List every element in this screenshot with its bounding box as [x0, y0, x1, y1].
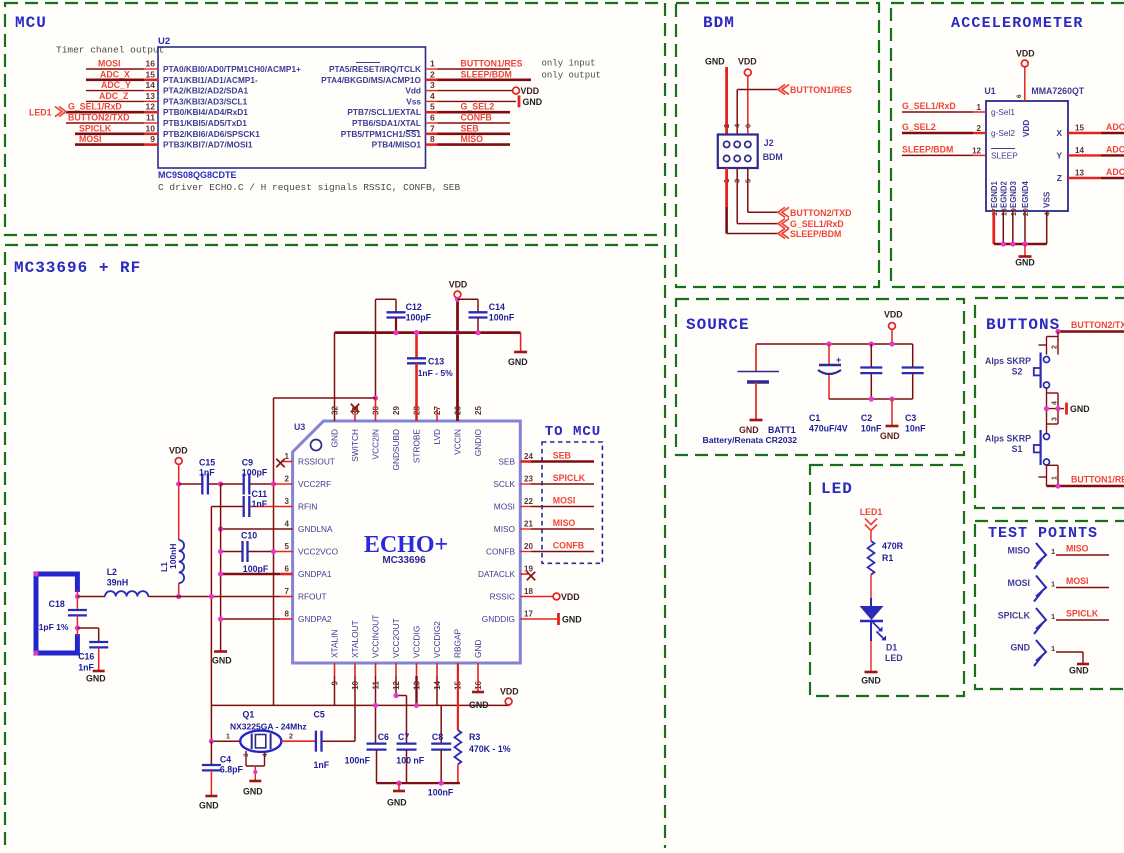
- section frame LED: [810, 465, 964, 696]
- svg-text:6: 6: [430, 113, 435, 123]
- svg-text:GND: GND: [469, 700, 489, 710]
- junction C1 top: [826, 341, 831, 346]
- svg-text:9: 9: [150, 134, 155, 144]
- svg-text:STROBE: STROBE: [412, 429, 422, 464]
- svg-text:CONFB: CONFB: [553, 541, 584, 551]
- section frame SOURCE: [676, 299, 964, 455]
- svg-text:VDD: VDD: [169, 446, 188, 456]
- switch S1: [1044, 434, 1050, 440]
- svg-text:LVD: LVD: [432, 429, 442, 445]
- svg-text:PTB2/KBI6/AD6/SPSCK1: PTB2/KBI6/AD6/SPSCK1: [163, 129, 260, 139]
- J2 contact: [745, 155, 751, 161]
- svg-text:100pF: 100pF: [406, 313, 432, 323]
- svg-text:G_SEL1/RxD: G_SEL1/RxD: [68, 102, 122, 112]
- svg-text:GND: GND: [1070, 404, 1090, 414]
- inductor L1 100nH: [179, 540, 184, 583]
- svg-text:15: 15: [1075, 124, 1084, 133]
- svg-text:RFIN: RFIN: [298, 502, 317, 512]
- svg-text:2: 2: [289, 734, 293, 741]
- svg-text:3: 3: [430, 80, 435, 90]
- svg-text:BATT1: BATT1: [768, 425, 796, 435]
- svg-text:VCC2VCO: VCC2VCO: [298, 547, 339, 557]
- svg-text:VCCIN: VCCIN: [453, 429, 463, 455]
- svg-text:G_SEL1/RxD: G_SEL1/RxD: [902, 101, 956, 111]
- capacitor C11 on RFIN: [250, 506, 292, 508]
- ground of GND test point: [1077, 663, 1089, 666]
- U2 pin 14 PTA2/KBI2/AD2/SDA1 wire / net ADC_Y: [86, 90, 144, 92]
- svg-text:SPICLK: SPICLK: [553, 473, 586, 483]
- svg-text:EGND4: EGND4: [1021, 180, 1030, 208]
- wire pin 16 GND stub: [477, 663, 479, 691]
- svg-text:Y: Y: [1056, 150, 1062, 160]
- wire VDD to rail: [891, 330, 893, 345]
- svg-text:RSSIC: RSSIC: [490, 592, 515, 602]
- no-connect X on pin 31 SWITCH: [354, 409, 356, 421]
- svg-text:SLEEP/BDM: SLEEP/BDM: [461, 69, 512, 79]
- svg-text:g-Sel2: g-Sel2: [991, 128, 1015, 138]
- svg-text:18: 18: [1001, 208, 1008, 216]
- svg-text:Vdd: Vdd: [405, 86, 421, 96]
- ground of bottom bus: [398, 783, 400, 790]
- svg-text:MISO: MISO: [553, 518, 576, 528]
- junction S2 top: [1055, 329, 1060, 334]
- svg-text:CONFB: CONFB: [486, 547, 516, 557]
- U2 pin 9 PTB3/KBI7/AD7/MOSI1 wire / net MOSI: [75, 143, 144, 146]
- svg-text:100nF: 100nF: [345, 756, 371, 766]
- svg-text:100pF: 100pF: [243, 564, 269, 574]
- U3 pin1 indicator circle: [311, 440, 322, 451]
- wire L2 to RFOUT pin 7: [148, 596, 280, 598]
- U2 pin 11 PTB1/KBI5/AD5/TxD1 wire / net BUTTON2/TXD: [66, 122, 144, 124]
- junction GND drop: [889, 396, 894, 401]
- svg-text:2: 2: [285, 475, 290, 484]
- svg-text:MISO: MISO: [1008, 546, 1031, 556]
- svg-text:C7: C7: [398, 732, 409, 742]
- svg-text:VDD: VDD: [561, 592, 580, 602]
- wire pin 14 VCCDIG2 down: [436, 663, 438, 676]
- svg-text:1: 1: [1051, 547, 1055, 556]
- svg-text:2: 2: [977, 124, 982, 133]
- svg-text:C4: C4: [220, 755, 231, 765]
- junction pin2 feed: [271, 481, 276, 486]
- wire GND to J2 pin1 column: [725, 67, 728, 135]
- svg-text:16: 16: [146, 59, 156, 69]
- junction C2 bottom: [869, 396, 874, 401]
- wire VDD to U1 VDD pin: [1024, 67, 1026, 101]
- svg-text:GND: GND: [861, 676, 881, 686]
- svg-text:XTALOUT: XTALOUT: [350, 620, 360, 658]
- svg-text:EGND1: EGND1: [990, 180, 999, 208]
- svg-text:2: 2: [430, 69, 435, 79]
- section frame ACCELEROMETER: [891, 3, 1124, 287]
- svg-text:RFOUT: RFOUT: [298, 592, 327, 602]
- svg-text:2: 2: [1052, 345, 1059, 349]
- U1 pin 12 SLEEP / net SLEEP/BDM: [902, 154, 973, 156]
- capacitor C1 (polarized): [828, 344, 830, 364]
- junction RFIN column RFOUT: [209, 594, 214, 599]
- svg-text:BUTTON2/TXD: BUTTON2/TXD: [1071, 320, 1124, 330]
- wire VDD to J2 pin6 column: [747, 76, 749, 135]
- wire U3 to net MOSI: [520, 506, 531, 508]
- svg-text:VDD: VDD: [521, 86, 540, 96]
- svg-text:10nF: 10nF: [905, 424, 926, 434]
- svg-text:LED1: LED1: [29, 108, 52, 118]
- U1 pin 15 X / net ADC_X: [1068, 132, 1101, 134]
- chevron BUTTON1/RES: [778, 85, 789, 95]
- svg-text:Timer chanel output: Timer chanel output: [56, 45, 164, 56]
- ground of source rail: [891, 399, 893, 425]
- svg-text:1: 1: [1052, 476, 1059, 480]
- stub pin 27 LVD: [436, 409, 438, 421]
- svg-text:VCCDIG2: VCCDIG2: [432, 621, 442, 658]
- junction C2 top: [869, 341, 874, 346]
- overline RESET on U2 pin 1: [356, 62, 380, 64]
- svg-text:GNDIO: GNDIO: [473, 428, 483, 456]
- svg-text:MISO: MISO: [1066, 544, 1089, 554]
- chevron BUTTON2/TXD: [778, 207, 789, 217]
- wire C8 from rail: [440, 705, 442, 743]
- junction C8 bottom: [439, 781, 444, 786]
- wire bottom ground bus: [377, 782, 460, 784]
- U2 pin 13 PTA3/KBI3/AD3/SCL1 wire / net ADC_Z: [86, 100, 144, 102]
- junction VDD bus: [455, 330, 460, 335]
- ground of pin 16: [472, 691, 484, 694]
- svg-text:X: X: [1056, 128, 1062, 138]
- wire antenna to L2: [77, 596, 105, 598]
- svg-text:C13: C13: [428, 357, 444, 367]
- svg-text:C6: C6: [378, 732, 389, 742]
- svg-text:NX3225GA - 24Mhz: NX3225GA - 24Mhz: [230, 722, 307, 732]
- junction VDD / C15: [176, 481, 181, 486]
- svg-text:G_SEL2: G_SEL2: [461, 102, 495, 112]
- svg-text:MC33696: MC33696: [382, 555, 426, 566]
- section frame MC33696 + RF: [5, 245, 665, 853]
- svg-text:39nH: 39nH: [107, 578, 129, 588]
- svg-text:470K - 1%: 470K - 1%: [469, 744, 511, 754]
- U1 pin 2 g-Sel2 / net G_SEL2: [902, 132, 973, 134]
- svg-text:8: 8: [285, 610, 290, 619]
- ground rail bottom wire: [829, 398, 913, 400]
- junction GNDLNA: [218, 526, 223, 531]
- svg-text:4: 4: [285, 520, 290, 529]
- ground of Q1: [249, 780, 261, 783]
- svg-text:4: 4: [262, 753, 269, 757]
- svg-text:12: 12: [972, 146, 981, 155]
- U2 pin 5 PTB7/SCL1/EXTAL wire / net G_SEL2: [426, 111, 438, 114]
- wire EGND1 to ground bus: [992, 211, 995, 244]
- connector J2 body: [718, 135, 758, 169]
- svg-text:VCC2OUT: VCC2OUT: [391, 618, 401, 658]
- svg-text:29: 29: [392, 406, 401, 415]
- svg-text:LED: LED: [821, 480, 853, 498]
- wire LED1 to R1: [870, 531, 872, 541]
- svg-text:ADC_Y: ADC_Y: [101, 80, 131, 90]
- svg-text:LED1: LED1: [860, 507, 883, 517]
- svg-text:21: 21: [524, 520, 533, 529]
- chevron LED1: [55, 107, 66, 117]
- wire BUTTON2/TXD: [1058, 330, 1124, 333]
- J2 contact: [734, 155, 740, 161]
- svg-text:BUTTON1/RES: BUTTON1/RES: [461, 59, 523, 69]
- svg-text:GND: GND: [199, 801, 219, 811]
- svg-text:C5: C5: [314, 710, 325, 720]
- ground of C16: [93, 670, 105, 673]
- svg-text:1: 1: [430, 59, 435, 69]
- svg-text:C14: C14: [489, 302, 505, 312]
- svg-text:C driver ECHO.C / H request si: C driver ECHO.C / H request signals RSSI…: [158, 182, 460, 193]
- junction pin11 H1: [373, 703, 378, 708]
- svg-text:EGND3: EGND3: [1009, 180, 1018, 208]
- svg-text:GNDPA1: GNDPA1: [298, 569, 332, 579]
- svg-text:R1: R1: [882, 553, 893, 563]
- section frame BUTTONS: [975, 298, 1124, 508]
- J2 contact: [734, 141, 740, 147]
- switch S1 pin 1 bracket: [1046, 465, 1048, 486]
- svg-text:SPICLK: SPICLK: [79, 123, 112, 133]
- Q1 case ground stubs: [245, 751, 247, 766]
- svg-text:7: 7: [430, 123, 435, 133]
- svg-text:18: 18: [524, 587, 533, 596]
- svg-text:MC33696 + RF: MC33696 + RF: [14, 259, 141, 277]
- pin 18 RSSIC to VDD: [520, 596, 553, 598]
- wire pin 13 VCCDIG down: [416, 663, 418, 676]
- svg-text:1nF: 1nF: [199, 468, 215, 478]
- junction Q1 left: [209, 739, 214, 744]
- resistor R1: [868, 541, 875, 575]
- wire bus to ground right: [520, 333, 522, 351]
- ground of D1: [865, 671, 878, 674]
- junction loop C16: [75, 625, 80, 630]
- TO MCU dashed box: [542, 442, 602, 563]
- svg-text:C15: C15: [199, 458, 215, 468]
- svg-text:VSS: VSS: [1043, 191, 1052, 208]
- svg-text:BDM: BDM: [703, 14, 735, 32]
- svg-text:GND: GND: [212, 656, 232, 666]
- svg-text:3: 3: [1052, 417, 1059, 421]
- svg-text:C8: C8: [432, 732, 443, 742]
- svg-text:Alps SKRP: Alps SKRP: [985, 356, 1031, 366]
- svg-text:GNDSUBD: GNDSUBD: [391, 429, 401, 471]
- svg-text:GNDLNA: GNDLNA: [298, 524, 333, 534]
- svg-text:6: 6: [1016, 94, 1023, 98]
- svg-text:GNDDIG: GNDDIG: [482, 614, 515, 624]
- svg-text:SLEEP/BDM: SLEEP/BDM: [902, 144, 953, 154]
- svg-text:1: 1: [285, 452, 290, 461]
- svg-text:PTB4/MISO1: PTB4/MISO1: [372, 140, 422, 150]
- VDD bus wire: [335, 331, 521, 334]
- accelerometer U1 body: [986, 101, 1068, 211]
- svg-text:SLEEP/BDM: SLEEP/BDM: [790, 229, 841, 239]
- wire C12 top to VCC2IN column: [376, 298, 397, 300]
- capacitor C16: [89, 641, 108, 643]
- capacitor C15: [179, 483, 202, 485]
- battery BATT1: [755, 344, 757, 371]
- svg-text:RBGAP: RBGAP: [453, 628, 463, 658]
- svg-text:Q1: Q1: [243, 710, 255, 720]
- svg-text:MISO: MISO: [494, 524, 516, 534]
- svg-text:14: 14: [146, 80, 156, 90]
- svg-text:6.8pF: 6.8pF: [220, 765, 244, 775]
- svg-text:MOSI: MOSI: [79, 134, 101, 144]
- capacitor C12: [395, 299, 397, 312]
- capacitor C5: [315, 731, 317, 752]
- svg-text:GND: GND: [880, 431, 900, 441]
- svg-text:PTB0/KBI4/AD4/RxD1: PTB0/KBI4/AD4/RxD1: [163, 107, 248, 117]
- wire U3 to net SEB: [520, 460, 531, 463]
- svg-text:10nF: 10nF: [861, 424, 882, 434]
- svg-text:Battery/Renata CR2032: Battery/Renata CR2032: [703, 435, 798, 445]
- svg-text:SLEEP: SLEEP: [991, 150, 1018, 160]
- wire pin 15 RBGAP to R3: [457, 663, 459, 730]
- svg-text:PTB1/KBI5/AD5/TxD1: PTB1/KBI5/AD5/TxD1: [163, 118, 247, 128]
- wire J2 pin4 to BUTTON1/RES: [736, 90, 738, 135]
- svg-text:PTA0/KBI0/AD0/TPM1CH0/ACMP1+: PTA0/KBI0/AD0/TPM1CH0/ACMP1+: [163, 64, 301, 74]
- svg-text:SEB: SEB: [498, 457, 515, 467]
- svg-text:15: 15: [146, 69, 156, 79]
- wire loop to C16: [77, 627, 98, 629]
- svg-text:470uF/4V: 470uF/4V: [809, 424, 848, 434]
- svg-text:MOSI: MOSI: [1008, 578, 1030, 588]
- svg-text:3: 3: [285, 497, 290, 506]
- wire R1 to D1: [870, 575, 872, 605]
- svg-text:C18: C18: [49, 599, 65, 609]
- junction C10 left: [218, 549, 223, 554]
- switch S2: [1044, 357, 1050, 363]
- capacitor C18 in loop: [76, 590, 78, 610]
- wire pin 8 GNDPA2: [221, 618, 280, 620]
- svg-text:C2: C2: [861, 413, 872, 423]
- svg-text:MISO: MISO: [461, 134, 484, 144]
- svg-text:20: 20: [1023, 208, 1030, 216]
- diode D1 LED: [870, 598, 872, 606]
- wire bus to pin 32 GND: [334, 333, 336, 421]
- svg-text:23: 23: [524, 475, 533, 484]
- resistor R3: [455, 730, 462, 764]
- svg-text:22: 22: [524, 497, 533, 506]
- wire left feed to VCC2IN: [274, 397, 376, 399]
- U1 pin 1 g-Sel1 / net G_SEL1/RxD: [902, 111, 973, 113]
- chevron SLEEP/BDM: [778, 229, 789, 239]
- svg-text:VCCINOUT: VCCINOUT: [371, 615, 381, 658]
- chevron G_SEL1/RxD: [778, 219, 789, 229]
- chevron LED1: [865, 519, 877, 531]
- inductor L2 39nH: [105, 591, 148, 596]
- capacitor C7: [397, 742, 417, 744]
- capacitor C13: [415, 333, 418, 359]
- svg-text:1nF: 1nF: [314, 760, 330, 770]
- svg-text:100nH: 100nH: [168, 543, 178, 569]
- wire GND test point: [1056, 651, 1083, 653]
- svg-text:PTA2/KBI2/AD2/SDA1: PTA2/KBI2/AD2/SDA1: [163, 86, 249, 96]
- svg-text:SEB: SEB: [461, 123, 479, 133]
- ground of C4: [205, 795, 217, 798]
- svg-text:19: 19: [524, 565, 533, 574]
- svg-text:GND: GND: [473, 640, 483, 658]
- wire VDD to rail: [509, 704, 510, 706]
- svg-text:17: 17: [524, 610, 533, 619]
- svg-text:GND: GND: [523, 97, 543, 107]
- svg-text:ADC_Z: ADC_Z: [1106, 167, 1124, 177]
- svg-text:C3: C3: [905, 413, 916, 423]
- svg-text:CONFB: CONFB: [461, 113, 492, 123]
- junction VCC2IN: [373, 395, 378, 400]
- U2 pin 12 PTB0/KBI4/AD4/RxD1 wire / net G_SEL1/RxD: [66, 111, 144, 114]
- svg-text:1: 1: [1051, 644, 1055, 653]
- svg-text:BUTTON2/TXD: BUTTON2/TXD: [790, 208, 851, 218]
- svg-text:PTB3/KBI7/AD7/MOSI1: PTB3/KBI7/AD7/MOSI1: [163, 140, 253, 150]
- wire bottom rail H1: [211, 704, 509, 706]
- svg-text:5: 5: [285, 542, 290, 551]
- U2 pin 7 PTB5/TPM1CH1/SS1 wire / net SEB: [426, 133, 438, 136]
- svg-text:VCCDIG: VCCDIG: [412, 626, 422, 658]
- wire EGND2 down: [1002, 211, 1004, 244]
- wire pin 6 GNDPA1: [221, 573, 280, 576]
- U2 pin 3 Vdd wire: [426, 90, 438, 92]
- ground of BATT1: [750, 419, 763, 422]
- svg-text:MOSI: MOSI: [1066, 576, 1088, 586]
- svg-text:DATACLK: DATACLK: [478, 569, 516, 579]
- capacitor C6: [367, 742, 387, 744]
- svg-text:only input: only input: [542, 59, 596, 69]
- svg-text:24: 24: [524, 452, 533, 461]
- svg-text:GND: GND: [562, 615, 582, 625]
- wire pin 11 VCCINOUT down to C6: [375, 663, 377, 676]
- J2 contact: [745, 141, 751, 147]
- svg-text:XTALIN: XTALIN: [330, 630, 340, 658]
- svg-text:TEST POINTS: TEST POINTS: [988, 525, 1098, 542]
- svg-text:D1: D1: [886, 643, 897, 653]
- svg-text:PTB7/SCL1/EXTAL: PTB7/SCL1/EXTAL: [347, 107, 421, 117]
- svg-text:25: 25: [474, 406, 483, 415]
- capacitor C8: [431, 742, 451, 744]
- section frame MCU: [5, 3, 665, 235]
- overline SLEEP on U1 pin 12: [991, 148, 1015, 150]
- svg-text:SWITCH: SWITCH: [350, 429, 360, 462]
- junction GNDPA2: [218, 616, 223, 621]
- svg-text:BDM: BDM: [763, 152, 783, 162]
- section frame BDM: [676, 3, 879, 287]
- junction S2-S1 right: [1055, 406, 1060, 411]
- pin 19 DATACLK no-connect: [520, 573, 528, 575]
- svg-text:LED: LED: [885, 653, 903, 663]
- svg-text:14: 14: [1075, 146, 1084, 155]
- U2 pin 6 PTB6/SDA1/XTAL wire / net CONFB: [426, 122, 438, 124]
- junction EGND4: [1022, 241, 1027, 246]
- svg-text:VCC2IN: VCC2IN: [371, 429, 381, 459]
- svg-text:SOURCE: SOURCE: [686, 316, 750, 334]
- svg-text:1: 1: [977, 103, 982, 112]
- power VDD of J2: [744, 69, 751, 76]
- svg-text:12: 12: [146, 102, 156, 112]
- svg-text:only output: only output: [542, 71, 601, 81]
- ground of buttons: [1065, 403, 1068, 415]
- pin 17 GNDDIG to ground: [520, 618, 557, 620]
- wire D1 to ground: [870, 641, 872, 671]
- junction EGND3: [1010, 241, 1015, 246]
- wire VDD to L1: [178, 465, 180, 541]
- junction C14 bus: [475, 330, 480, 335]
- svg-text:GND: GND: [1015, 258, 1035, 268]
- left ground column: [220, 484, 222, 651]
- ground of left column: [214, 650, 227, 653]
- junction VDD: [889, 341, 894, 346]
- svg-text:19: 19: [1011, 208, 1018, 216]
- svg-text:VDD: VDD: [884, 310, 903, 320]
- svg-text:G_SEL1/RxD: G_SEL1/RxD: [790, 219, 844, 229]
- junction VDD top: [455, 297, 460, 302]
- svg-text:SPICLK: SPICLK: [1066, 609, 1099, 619]
- junction loop top-left: [33, 571, 38, 576]
